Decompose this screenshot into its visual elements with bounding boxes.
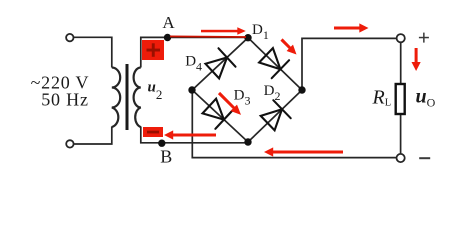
- svg-text:B: B: [160, 146, 172, 166]
- svg-text:50 Hz: 50 Hz: [41, 90, 89, 110]
- svg-text:A: A: [162, 13, 175, 32]
